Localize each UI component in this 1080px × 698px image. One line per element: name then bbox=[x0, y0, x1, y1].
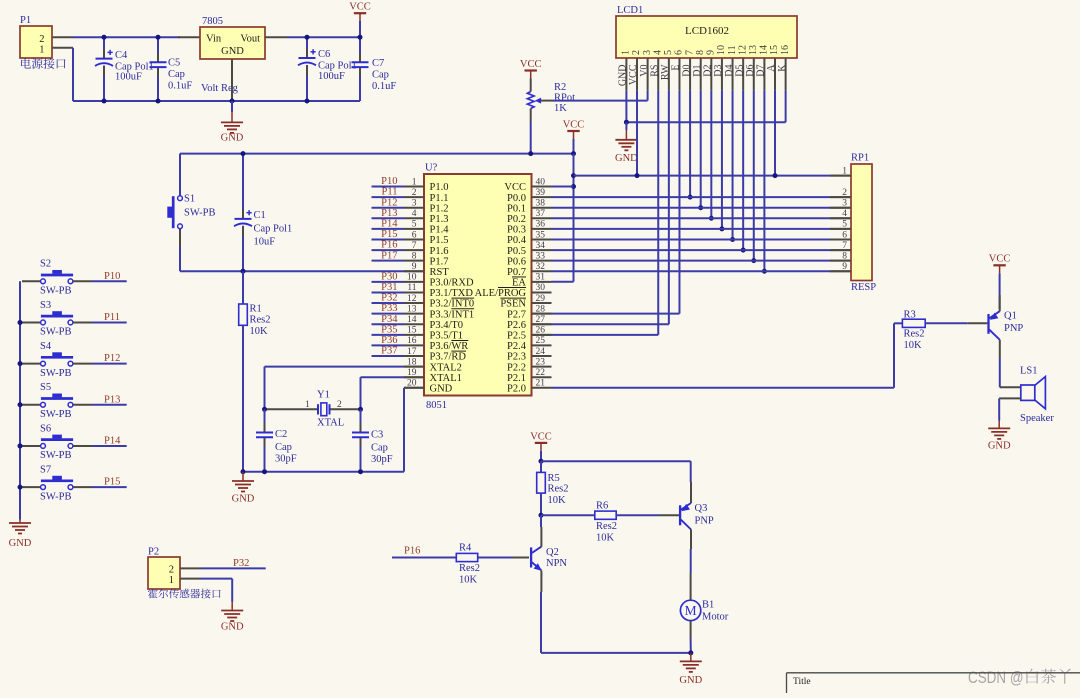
svg-text:36: 36 bbox=[536, 220, 546, 230]
wire LCD D1 column bbox=[700, 90, 702, 207]
svg-text:P0.2: P0.2 bbox=[507, 214, 526, 225]
svg-text:GND: GND bbox=[430, 383, 453, 394]
U? pin 27 P2.6 bbox=[532, 323, 552, 325]
svg-text:P14: P14 bbox=[104, 436, 121, 447]
svg-text:33: 33 bbox=[536, 251, 546, 261]
svg-text:10uF: 10uF bbox=[254, 237, 276, 248]
svg-text:Q3: Q3 bbox=[695, 503, 708, 514]
svg-text:13: 13 bbox=[407, 304, 417, 314]
resistor R5 bbox=[540, 461, 542, 472]
svg-text:XTAL: XTAL bbox=[317, 418, 344, 429]
ground GND (LCD) bbox=[625, 122, 627, 130]
U? pin 40 VCC bbox=[532, 186, 552, 188]
svg-text:S1: S1 bbox=[184, 194, 195, 205]
svg-text:4: 4 bbox=[842, 209, 847, 219]
svg-text:8051: 8051 bbox=[426, 400, 447, 411]
svg-text:V0: V0 bbox=[639, 65, 650, 77]
svg-text:S3: S3 bbox=[40, 300, 51, 311]
svg-text:P10: P10 bbox=[104, 271, 120, 282]
svg-text:P1.4: P1.4 bbox=[430, 225, 450, 236]
svg-text:R3: R3 bbox=[904, 310, 916, 321]
svg-text:Res2: Res2 bbox=[596, 521, 617, 532]
LCD1 pin 15 A bbox=[774, 58, 776, 90]
wire S2 to net P10 bbox=[73, 280, 92, 282]
ground GND (7805) bbox=[231, 101, 233, 112]
node: switch rail junction bbox=[18, 402, 23, 407]
U? pin 18 XTAL2 bbox=[404, 366, 424, 368]
wire LCD A pin15 down bbox=[774, 90, 776, 175]
svg-text:Vin: Vin bbox=[206, 34, 222, 45]
LCD1 pin 13 D6 bbox=[753, 58, 755, 90]
svg-text:XTAL1: XTAL1 bbox=[430, 373, 462, 384]
svg-text:16: 16 bbox=[780, 45, 791, 55]
svg-text:D7: D7 bbox=[756, 65, 767, 77]
svg-text:SW-PB: SW-PB bbox=[40, 368, 72, 379]
RP1 pin 1 bbox=[830, 175, 851, 177]
svg-text:23: 23 bbox=[536, 357, 546, 367]
svg-text:P2.5: P2.5 bbox=[507, 331, 526, 342]
U? pin 36 P0.3 bbox=[532, 228, 552, 230]
svg-text:P35: P35 bbox=[381, 324, 397, 335]
svg-text:P11: P11 bbox=[104, 312, 120, 323]
svg-text:Cap: Cap bbox=[372, 70, 389, 81]
node: D0/P0.0 bbox=[688, 195, 693, 200]
svg-text:P2.4: P2.4 bbox=[507, 341, 527, 352]
ground GND (motor) bbox=[690, 653, 692, 662]
node: D2/P0.2 bbox=[709, 216, 714, 221]
RP1 pin 2 bbox=[830, 196, 851, 198]
svg-text:Cap: Cap bbox=[168, 69, 185, 80]
svg-text:SW-PB: SW-PB bbox=[40, 409, 72, 420]
wire net P32 bbox=[180, 567, 201, 569]
svg-text:28: 28 bbox=[536, 304, 546, 314]
svg-text:D1: D1 bbox=[692, 65, 703, 77]
svg-text:P2.3: P2.3 bbox=[507, 352, 526, 363]
wire switch column ground rail bbox=[19, 281, 21, 519]
wire net P31 bbox=[372, 291, 405, 293]
RP1 pin 4 bbox=[830, 217, 851, 219]
svg-text:Res2: Res2 bbox=[250, 315, 271, 326]
svg-text:Title: Title bbox=[793, 677, 811, 687]
svg-text:P1.2: P1.2 bbox=[430, 203, 449, 214]
svg-text:P37: P37 bbox=[381, 346, 397, 357]
U? pin 1 P1.0 bbox=[404, 186, 424, 188]
RP1 pin 5 bbox=[830, 228, 851, 230]
svg-text:10K: 10K bbox=[904, 340, 923, 351]
svg-text:LCD1602: LCD1602 bbox=[685, 25, 729, 37]
svg-text:C1: C1 bbox=[254, 210, 266, 221]
svg-text:12: 12 bbox=[737, 45, 748, 55]
svg-text:P3.1/TXD: P3.1/TXD bbox=[430, 288, 474, 299]
wire LCD RW to P2.6 bbox=[668, 90, 670, 324]
svg-text:Res2: Res2 bbox=[904, 329, 925, 340]
RP1 pin 6 bbox=[830, 238, 851, 240]
regulator 7805 bbox=[200, 27, 265, 59]
svg-text:15: 15 bbox=[407, 326, 417, 336]
wire 7805 Vout to VCC node bbox=[265, 36, 287, 38]
svg-text:P33: P33 bbox=[381, 303, 397, 314]
node: C6 bottom bbox=[305, 99, 310, 104]
switch S3 bbox=[22, 321, 41, 323]
RP1 pin 3 bbox=[830, 207, 851, 209]
svg-text:P1.5: P1.5 bbox=[430, 235, 449, 246]
svg-text:Speaker: Speaker bbox=[1020, 413, 1054, 424]
svg-text:P3.3/INT1: P3.3/INT1 bbox=[430, 309, 475, 320]
svg-text:10K: 10K bbox=[548, 495, 567, 506]
node: VCC motor junction bbox=[539, 459, 544, 464]
wire S4 to net P12 bbox=[73, 363, 92, 365]
LCD1 pin 10 D3 bbox=[721, 58, 723, 90]
svg-text:Motor: Motor bbox=[702, 612, 729, 623]
svg-text:NPN: NPN bbox=[546, 558, 567, 569]
svg-text:8: 8 bbox=[695, 50, 706, 55]
U? pin 13 P3.3/INT1 bbox=[404, 313, 424, 315]
svg-text:P3.4/T0: P3.4/T0 bbox=[430, 320, 464, 331]
svg-text:LCD1: LCD1 bbox=[617, 5, 643, 16]
svg-text:S5: S5 bbox=[40, 382, 51, 393]
svg-text:P0.4: P0.4 bbox=[507, 235, 527, 246]
label 电源接口 bbox=[21, 58, 66, 69]
svg-text:1: 1 bbox=[621, 50, 632, 55]
svg-text:P2.0: P2.0 bbox=[507, 383, 526, 394]
svg-text:P1.6: P1.6 bbox=[430, 246, 449, 257]
wire net P17 bbox=[372, 260, 405, 262]
wire R2 wiper to LCD V0 bbox=[553, 100, 648, 102]
node: R1 bottom bbox=[241, 469, 246, 474]
node: crystal pin1 bbox=[262, 407, 267, 412]
svg-text:P2.2: P2.2 bbox=[507, 362, 526, 373]
wire VCC vertical to EA bbox=[573, 154, 575, 282]
svg-text:8: 8 bbox=[842, 251, 847, 261]
svg-text:40: 40 bbox=[536, 177, 546, 187]
svg-text:VCC: VCC bbox=[628, 64, 639, 85]
svg-text:Res2: Res2 bbox=[548, 484, 569, 495]
svg-text:RP1: RP1 bbox=[851, 153, 869, 164]
wire LCD D6 column bbox=[753, 90, 755, 260]
wire net P32 bbox=[372, 302, 405, 304]
U? pin 16 P3.6/WR bbox=[404, 344, 424, 346]
ground GND (speaker) bbox=[998, 421, 1000, 429]
svg-text:D2: D2 bbox=[703, 65, 714, 77]
svg-text:GND: GND bbox=[221, 622, 244, 633]
node: 7805 GND on rail bbox=[230, 99, 235, 104]
svg-text:P3.7/RD: P3.7/RD bbox=[430, 352, 467, 363]
node: D7/P0.7 bbox=[762, 269, 767, 274]
svg-text:D5: D5 bbox=[734, 65, 745, 77]
LCD connector LCD1 bbox=[616, 16, 797, 58]
capacitor C7 bbox=[359, 37, 361, 62]
switch S1 bbox=[179, 154, 181, 196]
U? pin 29 PSEN bbox=[532, 302, 552, 304]
svg-text:PNP: PNP bbox=[695, 516, 714, 527]
svg-text:P1.3: P1.3 bbox=[430, 214, 449, 225]
wire LCD VCC pin2 down bbox=[636, 90, 638, 175]
svg-text:P2: P2 bbox=[148, 547, 159, 558]
ground GND (switches) bbox=[19, 520, 21, 524]
wire LCD D3 column bbox=[721, 90, 723, 229]
svg-text:GND: GND bbox=[679, 675, 702, 686]
resistor pack RP1 bbox=[851, 164, 872, 281]
svg-text:38: 38 bbox=[536, 198, 546, 208]
U? pin 2 P1.1 bbox=[404, 196, 424, 198]
LCD1 pin 3 V0 bbox=[647, 58, 649, 90]
svg-text:C5: C5 bbox=[168, 58, 180, 69]
svg-text:S4: S4 bbox=[40, 341, 52, 352]
U? pin 15 P3.5/T1 bbox=[404, 334, 424, 336]
svg-text:4: 4 bbox=[652, 50, 663, 55]
svg-text:P31: P31 bbox=[381, 282, 397, 293]
svg-text:1: 1 bbox=[305, 400, 310, 410]
svg-text:LS1: LS1 bbox=[1020, 366, 1038, 377]
svg-text:VCC: VCC bbox=[349, 2, 371, 13]
node: C6 top bbox=[305, 35, 310, 40]
svg-text:30: 30 bbox=[536, 283, 546, 293]
U? pin 20 GND bbox=[404, 387, 424, 389]
svg-text:0.1uF: 0.1uF bbox=[372, 81, 396, 92]
node: D6/P0.6 bbox=[751, 258, 756, 263]
wire XTAL1 to crystal bbox=[404, 376, 424, 378]
svg-text:P34: P34 bbox=[381, 314, 398, 325]
svg-text:K: K bbox=[777, 64, 788, 72]
svg-text:P16: P16 bbox=[381, 240, 397, 251]
wire LCD D5 column bbox=[742, 90, 744, 250]
wire GND-K tie bbox=[626, 121, 785, 123]
resistor R6 bbox=[541, 514, 595, 516]
ground GND (crystal) bbox=[242, 472, 244, 481]
U? pin 6 P1.5 bbox=[404, 238, 424, 240]
svg-text:D0: D0 bbox=[681, 65, 692, 77]
svg-text:Q1: Q1 bbox=[1004, 311, 1017, 322]
svg-text:Cap Pol1: Cap Pol1 bbox=[254, 224, 293, 235]
svg-text:4: 4 bbox=[412, 209, 417, 219]
svg-text:P16: P16 bbox=[404, 545, 420, 556]
U? pin 37 P0.2 bbox=[532, 217, 552, 219]
svg-text:R2: R2 bbox=[554, 82, 566, 93]
svg-text:S6: S6 bbox=[40, 423, 51, 434]
svg-text:RW: RW bbox=[660, 64, 671, 80]
LCD1 pin 16 K bbox=[785, 58, 787, 90]
svg-text:16: 16 bbox=[407, 336, 417, 346]
svg-text:C6: C6 bbox=[318, 49, 330, 60]
svg-text:P0.0: P0.0 bbox=[507, 193, 526, 204]
LCD1 pin 6 E bbox=[678, 58, 680, 90]
label 霍尔传感器接口 bbox=[148, 589, 221, 599]
svg-text:D3: D3 bbox=[713, 65, 724, 77]
svg-text:P13: P13 bbox=[104, 394, 120, 405]
svg-text:P13: P13 bbox=[381, 208, 397, 219]
wire RST row to U? pin 9 bbox=[180, 270, 404, 272]
svg-text:6: 6 bbox=[412, 230, 417, 240]
svg-text:26: 26 bbox=[536, 326, 546, 336]
switch S6 bbox=[22, 445, 41, 447]
U? pin 10 P3.0/RXD bbox=[404, 281, 424, 283]
wire net P13 bbox=[372, 217, 405, 219]
svg-text:P12: P12 bbox=[381, 197, 397, 208]
wire pin40 VCC bbox=[552, 186, 574, 188]
svg-text:6: 6 bbox=[842, 230, 847, 240]
svg-text:D6: D6 bbox=[745, 65, 756, 77]
node: C5 bottom bbox=[156, 99, 161, 104]
svg-text:7: 7 bbox=[842, 241, 847, 251]
svg-text:21: 21 bbox=[536, 379, 546, 389]
svg-text:32: 32 bbox=[536, 262, 546, 272]
svg-text:C7: C7 bbox=[372, 58, 384, 69]
wire LCD RS to P2.5 bbox=[657, 90, 659, 335]
svg-text:P15: P15 bbox=[104, 477, 120, 488]
motor B1 bbox=[680, 600, 700, 620]
svg-text:A: A bbox=[766, 64, 777, 72]
node: LCD GND junction bbox=[624, 120, 629, 125]
svg-text:30pF: 30pF bbox=[371, 454, 393, 465]
svg-text:U?: U? bbox=[425, 163, 438, 174]
ground GND (P2) bbox=[231, 602, 233, 611]
svg-text:100uF: 100uF bbox=[318, 71, 345, 82]
node: VCC/Vout junction bbox=[358, 35, 363, 40]
wire P2.0 to R3 bbox=[552, 387, 895, 389]
switch S7 bbox=[22, 486, 41, 488]
U? pin 25 P2.4 bbox=[532, 344, 552, 346]
svg-text:VCC: VCC bbox=[504, 182, 526, 193]
svg-text:P3.5/T1: P3.5/T1 bbox=[430, 331, 464, 342]
svg-text:10: 10 bbox=[407, 273, 417, 283]
wire Q3 emitter to motor bbox=[690, 530, 692, 550]
svg-text:P1.7: P1.7 bbox=[430, 256, 449, 267]
svg-text:15: 15 bbox=[769, 45, 780, 55]
LCD1 pin 8 D1 bbox=[700, 58, 702, 90]
svg-text:25: 25 bbox=[536, 336, 546, 346]
U? pin 21 P2.0 bbox=[532, 387, 552, 389]
svg-text:ALE/PROG: ALE/PROG bbox=[475, 288, 527, 299]
svg-text:VCC: VCC bbox=[530, 431, 552, 442]
U? pin 12 P3.2/INT0 bbox=[404, 302, 424, 304]
svg-text:2: 2 bbox=[842, 188, 847, 198]
svg-text:100uF: 100uF bbox=[115, 72, 142, 83]
capacitor C4 bbox=[103, 37, 105, 58]
svg-text:5: 5 bbox=[842, 220, 847, 230]
wire Q1 emitter to speaker bbox=[999, 340, 1001, 358]
op-amp U? 8051 body bbox=[424, 174, 532, 396]
capacitor C1 bbox=[242, 154, 244, 219]
LCD1 pin 9 D2 bbox=[710, 58, 712, 90]
svg-text:P17: P17 bbox=[381, 250, 397, 261]
svg-text:P36: P36 bbox=[381, 335, 397, 346]
svg-text:B1: B1 bbox=[702, 600, 714, 611]
svg-text:P1.0: P1.0 bbox=[430, 182, 449, 193]
wire net P16 to R4 bbox=[392, 557, 456, 559]
wire net P37 bbox=[372, 355, 405, 357]
svg-text:VCC: VCC bbox=[520, 59, 542, 70]
svg-text:Res2: Res2 bbox=[459, 563, 480, 574]
svg-text:R5: R5 bbox=[548, 473, 560, 484]
svg-text:1: 1 bbox=[169, 575, 174, 586]
wire net P16 bbox=[372, 249, 405, 251]
svg-text:0.1uF: 0.1uF bbox=[168, 81, 192, 92]
svg-text:D4: D4 bbox=[724, 65, 735, 77]
wire net P15 bbox=[372, 238, 405, 240]
U? pin 23 P2.2 bbox=[532, 366, 552, 368]
svg-text:31: 31 bbox=[536, 273, 546, 283]
node: C3 bottom bbox=[358, 469, 363, 474]
U? pin 8 P1.7 bbox=[404, 260, 424, 262]
node: C5 top bbox=[156, 35, 161, 40]
potentiometer R2 RPot bbox=[527, 92, 534, 109]
svg-text:C2: C2 bbox=[275, 429, 287, 440]
node: switch rail junction bbox=[18, 443, 23, 448]
svg-text:R6: R6 bbox=[596, 501, 608, 512]
svg-text:10: 10 bbox=[716, 45, 727, 55]
node: switch rail junction bbox=[18, 361, 23, 366]
U? pin 39 P0.0 bbox=[532, 196, 552, 198]
svg-text:8: 8 bbox=[412, 251, 417, 261]
svg-text:2: 2 bbox=[39, 34, 44, 45]
node: switch rail junction bbox=[18, 320, 23, 325]
svg-text:XTAL2: XTAL2 bbox=[430, 362, 462, 373]
transistor Q3 PNP bbox=[679, 505, 681, 525]
svg-text:P2.7: P2.7 bbox=[507, 309, 526, 320]
svg-text:RST: RST bbox=[430, 267, 450, 278]
svg-text:22: 22 bbox=[536, 368, 546, 378]
svg-text:7: 7 bbox=[684, 50, 695, 55]
svg-text:GND: GND bbox=[221, 133, 244, 144]
U? pin 3 P1.2 bbox=[404, 207, 424, 209]
node: C4 bottom bbox=[102, 99, 107, 104]
svg-text:7805: 7805 bbox=[202, 16, 223, 27]
wire net P34 bbox=[372, 323, 405, 325]
svg-text:PNP: PNP bbox=[1004, 323, 1023, 334]
node: motor/ground junction bbox=[688, 650, 693, 655]
svg-text:GND: GND bbox=[9, 538, 32, 549]
svg-text:P32: P32 bbox=[381, 293, 397, 304]
node: VCC to LCD rail bbox=[571, 173, 576, 178]
svg-text:1: 1 bbox=[412, 177, 417, 187]
transistor Q1 PNP bbox=[987, 314, 989, 334]
wire LCD K pin16 down bbox=[785, 90, 787, 122]
U? pin 24 P2.3 bbox=[532, 355, 552, 357]
svg-text:C4: C4 bbox=[115, 50, 128, 61]
svg-text:34: 34 bbox=[536, 241, 546, 251]
svg-text:29: 29 bbox=[536, 294, 546, 304]
wire net P36 bbox=[372, 344, 405, 346]
U? pin 14 P3.4/T0 bbox=[404, 323, 424, 325]
svg-text:10K: 10K bbox=[459, 575, 478, 586]
wire net P11 bbox=[372, 196, 405, 198]
svg-text:2: 2 bbox=[412, 188, 417, 198]
node: R2 bottom on VCC rail bbox=[528, 151, 533, 156]
svg-text:9: 9 bbox=[412, 262, 417, 272]
node: D5/P0.5 bbox=[741, 248, 746, 253]
svg-text:P0.3: P0.3 bbox=[507, 225, 526, 236]
capacitor C3 bbox=[360, 409, 362, 432]
crystal Y1 bbox=[265, 408, 319, 410]
wire VCC rail to Q3 collector bbox=[541, 460, 691, 462]
svg-text:VCC: VCC bbox=[989, 254, 1011, 265]
svg-text:Cap: Cap bbox=[371, 443, 388, 454]
wire LCD D4 column bbox=[732, 90, 734, 239]
wire P1 pin1 down to ground rail bbox=[52, 47, 73, 49]
wire LCD D0 column bbox=[689, 90, 691, 197]
svg-text:SW-PB: SW-PB bbox=[184, 208, 216, 219]
svg-text:S2: S2 bbox=[40, 259, 51, 270]
wire 7805 GND pin down bbox=[231, 59, 233, 101]
svg-text:P3.6/WR: P3.6/WR bbox=[430, 341, 469, 352]
node: D1/P0.1 bbox=[698, 205, 703, 210]
U? pin 7 P1.6 bbox=[404, 249, 424, 251]
node: switch rail junction bbox=[18, 485, 23, 490]
svg-text:14: 14 bbox=[407, 315, 417, 325]
svg-text:24: 24 bbox=[536, 347, 546, 357]
svg-text:P14: P14 bbox=[381, 218, 398, 229]
svg-text:P11: P11 bbox=[382, 187, 398, 198]
